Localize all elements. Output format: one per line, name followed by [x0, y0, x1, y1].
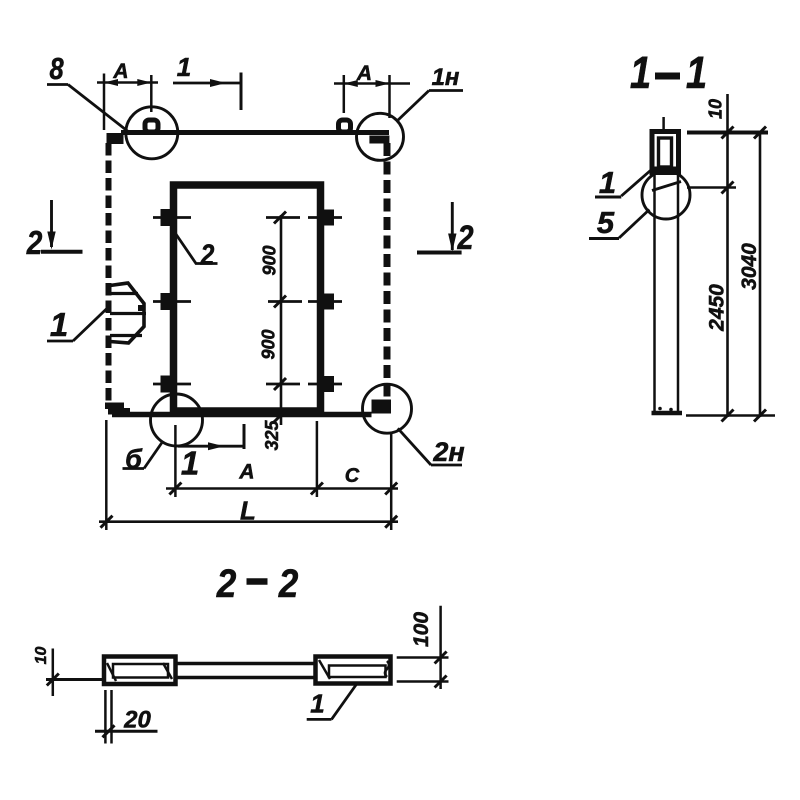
- svg-text:2: 2: [278, 561, 299, 606]
- svg-text:900: 900: [259, 329, 279, 359]
- svg-text:А: А: [238, 461, 254, 484]
- dim L line: [99, 520, 398, 523]
- svg-text:б: б: [125, 444, 143, 474]
- anchor tick right 2: [308, 300, 342, 303]
- svg-text:1: 1: [599, 165, 616, 200]
- svg-text:8: 8: [49, 52, 63, 87]
- title 1-1 dash: [655, 73, 680, 80]
- bottom dim extension lines: [105, 420, 108, 530]
- svg-text:1: 1: [177, 52, 191, 82]
- section 2-2 dim 10: [52, 649, 55, 697]
- section 1-1 column bottom: [652, 411, 683, 416]
- anchor tick right 1: [308, 216, 342, 219]
- section 1-1 dim slashes: [722, 127, 734, 139]
- svg-text:А: А: [356, 62, 372, 85]
- panel top-right corner notch: [369, 136, 389, 144]
- svg-text:1: 1: [310, 689, 324, 719]
- section 2-2 dim 20: [104, 690, 107, 744]
- detail circle 8 top-left: [126, 107, 178, 159]
- leader label 2 opening: [176, 234, 218, 264]
- section 1-1 mid extension: [687, 186, 736, 189]
- svg-text:2: 2: [200, 239, 215, 271]
- section 2-2 label 1 leader: [307, 718, 332, 721]
- svg-text:3040: 3040: [738, 243, 761, 290]
- dim A C line: [166, 487, 398, 490]
- section 1-1 label 1 leader: [595, 196, 621, 199]
- svg-text:10: 10: [706, 99, 726, 119]
- vertical dimension line 900 900 325: [280, 215, 283, 425]
- label 2н leader: [398, 428, 431, 465]
- detail circle 2н bottom-right: [363, 384, 412, 433]
- section 1-1 loop cross-section: [659, 138, 672, 167]
- panel top-left corner step: [107, 133, 124, 144]
- section 1-1 column body: [653, 171, 656, 413]
- section 1-1 dim line 2450: [726, 94, 729, 417]
- section 2-2 right block: [316, 657, 391, 684]
- panel right edge: [384, 143, 391, 400]
- section 1-1 bottom extension: [686, 414, 775, 417]
- detail circle 1н top-right: [357, 113, 404, 160]
- anchor tick left 3: [153, 383, 191, 386]
- section 1-1 dim line 3040: [759, 133, 762, 418]
- panel bottom edge: [112, 412, 372, 418]
- svg-text:1: 1: [630, 47, 651, 98]
- section mark 2 right: [451, 202, 454, 250]
- svg-text:2: 2: [216, 561, 237, 606]
- svg-text:2450: 2450: [706, 284, 729, 332]
- svg-text:325: 325: [262, 420, 282, 451]
- section 1-1 centre tick: [662, 117, 665, 129]
- panel left edge: [106, 143, 112, 404]
- svg-text:900: 900: [260, 245, 280, 275]
- section 1-1 label 5 leader: [589, 237, 619, 240]
- svg-text:1: 1: [181, 445, 199, 482]
- section 1-1 weld diagonal: [652, 182, 681, 191]
- panel bottom-left corner step: [105, 403, 130, 415]
- detail circle б bottom-left: [151, 394, 203, 446]
- svg-text:100: 100: [410, 612, 433, 647]
- svg-text:20: 20: [123, 707, 151, 734]
- svg-text:2н: 2н: [432, 437, 464, 467]
- svg-text:2: 2: [457, 218, 474, 257]
- label 8 leader: [47, 83, 68, 86]
- svg-text:1: 1: [50, 306, 68, 343]
- panel bottom-right corner notch: [372, 400, 392, 414]
- section mark 2 left: [50, 200, 53, 247]
- section 1-1 detail circle: [642, 171, 690, 219]
- section 2-2 left block: [104, 657, 176, 685]
- lifting loop top-left: [145, 120, 158, 132]
- svg-text:2: 2: [26, 225, 43, 262]
- svg-text:1н: 1н: [432, 64, 460, 91]
- label б leader: [123, 467, 145, 470]
- svg-text:1: 1: [686, 47, 707, 98]
- lifting loop top-right: [339, 120, 351, 132]
- edge socket detail: [110, 283, 144, 343]
- section mark 1 bottom: [178, 445, 244, 448]
- anchor tick left 2: [153, 300, 191, 303]
- section 2-2 web: [176, 662, 316, 666]
- anchor tick left 1: [153, 216, 191, 219]
- svg-text:10: 10: [33, 647, 50, 665]
- dim A top-right: [343, 75, 346, 113]
- title 2-2 dash: [247, 578, 268, 585]
- svg-text:5: 5: [597, 205, 615, 240]
- opening inner rectangle: [174, 185, 321, 411]
- svg-text:С: С: [345, 465, 360, 487]
- svg-text:А: А: [112, 60, 128, 83]
- svg-text:L: L: [240, 496, 256, 526]
- label 1н leader: [429, 89, 463, 92]
- anchor tick right 3: [308, 383, 342, 386]
- section 1-1 top extension: [687, 131, 768, 135]
- panel top edge: [121, 130, 389, 135]
- label 1 socket leader: [47, 340, 73, 343]
- dim A top-left: [103, 74, 106, 131]
- section 1-1 cap: [652, 132, 679, 173]
- section 2-2 dim 100: [439, 606, 442, 689]
- section mark 1 top: [173, 82, 242, 85]
